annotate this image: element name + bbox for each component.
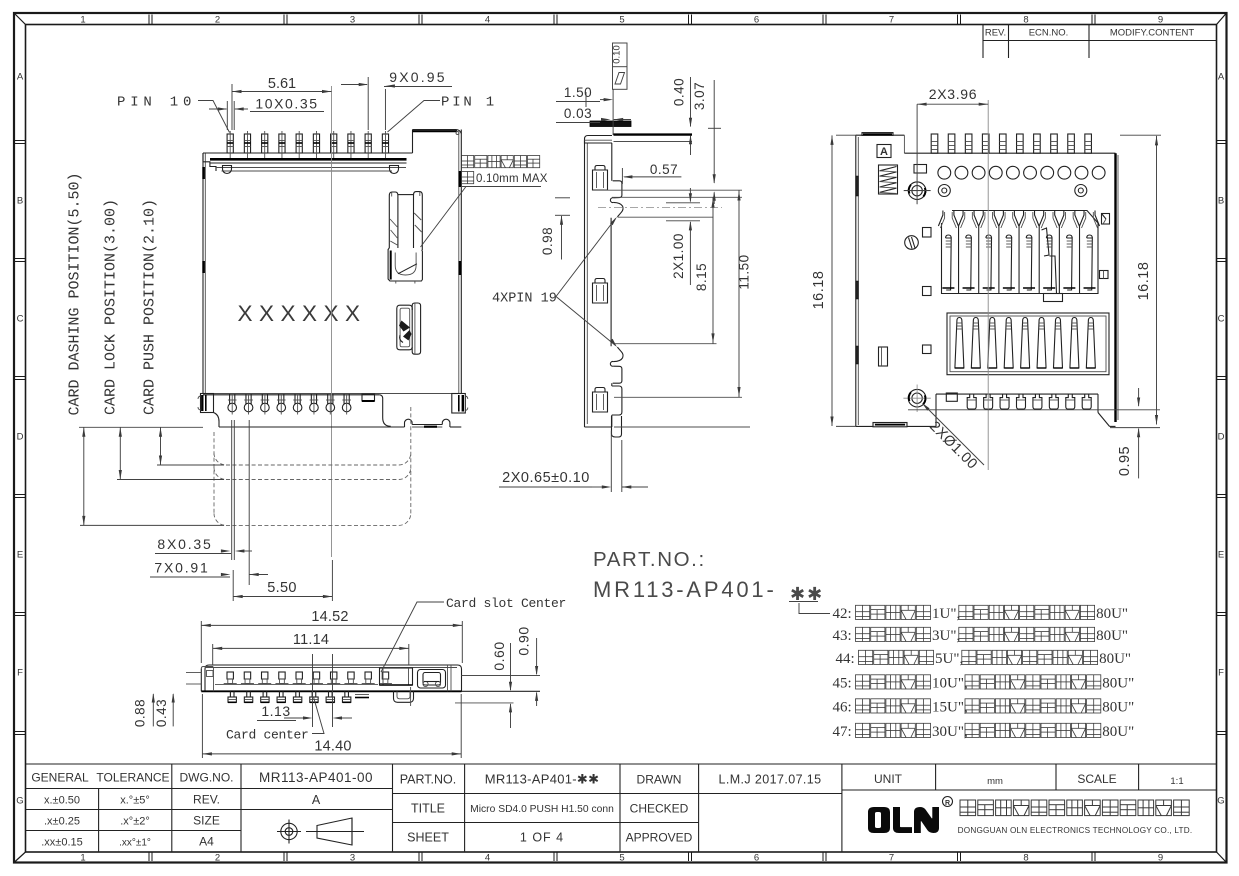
svg-text:DWG.NO.: DWG.NO.: [180, 771, 234, 785]
shell edge tick marks: [204, 167, 460, 275]
top shell band: [203, 153, 407, 171]
small rect near spring: [914, 165, 927, 174]
svg-text:MR113-AP401-✱✱: MR113-AP401-✱✱: [485, 772, 600, 787]
svg-text:4XPIN 19: 4XPIN 19: [492, 292, 557, 307]
svg-text:REV.: REV.: [193, 793, 220, 807]
svg-text:80U": 80U": [1102, 676, 1134, 692]
card slot center line: [332, 654, 334, 727]
svg-text:D: D: [17, 432, 24, 443]
svg-text:D: D: [1218, 432, 1225, 443]
dimension 7X0.91 bottom: [150, 420, 268, 585]
label PIN 10 with leader: [117, 95, 230, 133]
card center line: [312, 654, 314, 727]
svg-text:TOLERANCE: TOLERANCE: [96, 771, 169, 785]
svg-text:F: F: [17, 668, 23, 679]
svg-text:MR113-AP401-: MR113-AP401-: [593, 577, 777, 602]
side view body outline: [585, 140, 612, 427]
svg-text:2: 2: [215, 853, 220, 864]
svg-text:0.60: 0.60: [491, 641, 507, 670]
svg-text:8: 8: [1023, 853, 1028, 864]
svg-text:1: 1: [80, 15, 85, 26]
dimension 0.98: [540, 198, 570, 260]
svg-text:0.90: 0.90: [516, 626, 532, 655]
svg-text:.xx°±1°: .xx°±1°: [119, 838, 151, 849]
label Card slot Center with leader: [381, 596, 566, 672]
svg-text:1.13: 1.13: [261, 703, 290, 719]
svg-text:15U",: 15U",: [932, 700, 968, 716]
svg-text:0.57: 0.57: [650, 162, 678, 177]
square with diagonal right: [1102, 214, 1110, 225]
dimension 11.14: [213, 632, 409, 665]
card stop boss lower: [610, 347, 623, 383]
svg-text:x.±0.50: x.±0.50: [44, 795, 80, 807]
svg-text:mm: mm: [987, 776, 1003, 787]
company name Chinese: [960, 800, 976, 816]
rivet left: [938, 185, 950, 197]
svg-text:1:1: 1:1: [1170, 776, 1183, 787]
svg-text:6: 6: [754, 853, 759, 864]
dimension 0.60: [491, 641, 512, 728]
svg-text:DONGGUAN OLN ELECTRONICS TECHN: DONGGUAN OLN ELECTRONICS TECHNOLOGY CO.,…: [958, 826, 1193, 835]
dimension 16.18 right: [1120, 135, 1161, 424]
coil spring symbol: [879, 165, 898, 194]
dimension 14.52: [201, 609, 462, 663]
svg-text:.x±0.25: .x±0.25: [44, 816, 80, 828]
svg-text:ECN.NO.: ECN.NO.: [1029, 28, 1069, 39]
svg-text:9: 9: [1158, 15, 1163, 26]
svg-text:3: 3: [350, 15, 355, 26]
svg-text:C: C: [1218, 314, 1225, 325]
front elevation body: [201, 665, 461, 691]
dimension 2X3.96: [904, 86, 988, 204]
svg-text:80U": 80U": [1102, 724, 1134, 740]
dimension 9X0.95: [341, 69, 452, 130]
title block texts left: [31, 770, 373, 849]
svg-text:4: 4: [485, 15, 490, 26]
side view top flange: [585, 136, 613, 144]
flatness tolerance symbol 0.10: [612, 43, 627, 89]
lower contact comb: [947, 313, 1109, 375]
dimension 0.43: [154, 693, 175, 727]
contact tips underline: [215, 684, 378, 686]
dimension 1.13: [257, 703, 352, 721]
svg-text:43:: 43:: [833, 628, 852, 644]
svg-text:8.15: 8.15: [694, 263, 709, 291]
bottom skirt outline: [214, 413, 462, 428]
projection lines right: [455, 676, 540, 703]
svg-text:PIN 1: PIN 1: [441, 95, 497, 111]
dimension 14.40: [202, 694, 461, 758]
card push position dimension: [142, 199, 225, 465]
label PIN 1 with leader: [388, 95, 498, 133]
svg-text:44:: 44:: [836, 651, 855, 667]
svg-text:G: G: [16, 796, 23, 807]
svg-text:A: A: [17, 72, 24, 83]
leader from asterisks to option list: [799, 603, 830, 614]
svg-text:0.98: 0.98: [540, 227, 555, 255]
card dashing position dimension: [67, 172, 225, 525]
svg-text:CARD PUSH POSITION(2.10): CARD PUSH POSITION(2.10): [142, 199, 159, 415]
dimension 8X0.35 bottom: [155, 420, 252, 560]
side contact window bottom: [593, 388, 608, 413]
svg-text:B: B: [17, 196, 23, 207]
center line vertical: [331, 86, 333, 557]
svg-text:80U": 80U": [1102, 700, 1134, 716]
lock clip lower: [397, 303, 421, 354]
part number heading: [593, 548, 706, 571]
side contact window middle: [593, 279, 608, 304]
dimension 0.90: [516, 626, 539, 706]
bottom left mount pad: [198, 394, 214, 413]
svg-text:SIZE: SIZE: [193, 814, 220, 828]
card detect contact: [1042, 228, 1063, 302]
svg-text:0.43: 0.43: [154, 699, 169, 727]
svg-text:GENERAL: GENERAL: [31, 771, 89, 785]
svg-text:45:: 45:: [833, 676, 852, 692]
svg-text:Micro SD4.0 PUSH H1.50 conn: Micro SD4.0 PUSH H1.50 conn: [470, 804, 614, 815]
svg-text:x.°±5°: x.°±5°: [120, 795, 150, 807]
label Card center with leader: [226, 697, 324, 743]
note spring height 0.10mm MAX: [421, 156, 548, 248]
plating option 44: [836, 650, 1132, 667]
svg-text:MODIFY.CONTENT: MODIFY.CONTENT: [1110, 28, 1194, 39]
small squares on base: [923, 228, 932, 354]
svg-text:PART.NO.: PART.NO.: [400, 773, 457, 787]
svg-text:1U",: 1U",: [932, 606, 960, 622]
zone letters A-G left: [16, 72, 24, 807]
left edge tick marks: [856, 176, 859, 364]
top left shield tab: [862, 133, 893, 136]
svg-text:B: B: [1218, 196, 1224, 207]
card lock position dimension: [103, 199, 225, 480]
card position reference line: [79, 426, 203, 428]
card slot projection lines: [598, 190, 750, 427]
upper contact comb: [942, 211, 1099, 294]
svg-text:8: 8: [1023, 15, 1028, 26]
svg-text:CARD DASHING POSITION(5.50): CARD DASHING POSITION(5.50): [67, 172, 84, 415]
svg-text:30U",: 30U",: [932, 724, 968, 740]
dimension 1.50: [556, 85, 613, 107]
svg-text:A: A: [1218, 72, 1225, 83]
svg-text:Card center: Card center: [226, 728, 309, 743]
svg-text:L.M.J 2017.07.15: L.M.J 2017.07.15: [719, 773, 822, 787]
svg-text:3.07: 3.07: [692, 82, 707, 110]
svg-text:80U": 80U": [1096, 628, 1128, 644]
svg-text:7: 7: [889, 853, 894, 864]
svg-text:14.52: 14.52: [311, 609, 348, 625]
registered trademark symbol: [943, 797, 953, 808]
dimension 0.03: [556, 106, 631, 123]
svg-text:0.40: 0.40: [672, 78, 687, 106]
svg-text:5: 5: [619, 853, 624, 864]
svg-text:80U": 80U": [1096, 606, 1128, 622]
svg-text:F: F: [1218, 668, 1224, 679]
svg-text:A: A: [880, 146, 888, 158]
plating option 45: [833, 675, 1135, 692]
dimension 0.88: [133, 693, 155, 727]
zone tick marks left/right: [15, 141, 1226, 735]
svg-text:9X0.95: 9X0.95: [389, 69, 447, 85]
svg-text:R: R: [945, 800, 950, 807]
extra tail right: [355, 695, 369, 698]
dimension 2X1.00: [666, 188, 700, 285]
top pins PIN10-PIN1: [227, 131, 388, 158]
front elevation solder tails: [228, 691, 351, 702]
svg-text:7X0.91: 7X0.91: [154, 560, 209, 576]
svg-text:G: G: [1217, 796, 1224, 807]
dimension 0.40: [672, 77, 693, 155]
left slot rect: [879, 347, 888, 366]
svg-text:REV.: REV.: [985, 28, 1006, 39]
plating option 42: [833, 605, 1129, 622]
svg-text:5: 5: [619, 15, 624, 26]
hole 2X1.00 top crosshair: [903, 177, 930, 205]
eject housing tab below: [394, 687, 414, 706]
zone letters A-G right: [1217, 72, 1225, 807]
bottom pins row: [228, 394, 351, 415]
svg-text:Card slot Center: Card slot Center: [446, 596, 566, 611]
side contact window top: [593, 166, 608, 191]
svg-text:8X0.35: 8X0.35: [157, 536, 212, 552]
dimension 3.07: [692, 80, 721, 204]
svg-text:10X0.35: 10X0.35: [255, 96, 318, 112]
zone tick marks top/bottom: [149, 15, 1095, 862]
svg-text:.xx±0.15: .xx±0.15: [41, 837, 83, 849]
svg-text:0.10: 0.10: [612, 45, 623, 64]
svg-text:2X3.96: 2X3.96: [929, 86, 978, 102]
projection lines left: [186, 673, 201, 685]
svg-text:3U",: 3U",: [932, 628, 960, 644]
side view top lead bar: [590, 121, 692, 142]
svg-text:80U": 80U": [1099, 651, 1131, 667]
push rod window: [418, 670, 446, 689]
svg-text:E: E: [1218, 550, 1224, 561]
center line bottom view: [987, 100, 989, 470]
flatness datum line: [612, 90, 614, 136]
dimension 10X0.35: [209, 96, 324, 131]
bottom tab row: [946, 393, 1091, 409]
dimension 11.50: [737, 190, 752, 397]
front elevation contact tips: [224, 672, 392, 684]
svg-text:6: 6: [754, 15, 759, 26]
card stop boss upper: [610, 181, 623, 217]
svg-text:SHEET: SHEET: [407, 831, 449, 845]
bottom right mount pad: [452, 394, 468, 414]
plating option 47: [833, 723, 1135, 740]
svg-text:5U",: 5U",: [935, 651, 963, 667]
svg-text:CHECKED: CHECKED: [630, 802, 689, 816]
svg-text:2X0.65±0.10: 2X0.65±0.10: [502, 470, 590, 486]
side mount pad: [612, 386, 622, 415]
rivet right: [1075, 185, 1087, 197]
svg-text:16.18: 16.18: [811, 271, 827, 310]
svg-text:2X1.00: 2X1.00: [671, 233, 686, 279]
svg-text:5.61: 5.61: [268, 76, 296, 92]
bottom left shield tab: [873, 423, 907, 427]
title block texts right: [400, 772, 1184, 845]
svg-text:16.18: 16.18: [1136, 262, 1152, 301]
svg-text:14.40: 14.40: [314, 739, 351, 755]
front view body outline: [203, 130, 461, 394]
svg-text:0.03: 0.03: [564, 106, 592, 121]
dimension 5.61: [232, 76, 332, 130]
svg-text:SCALE: SCALE: [1077, 772, 1116, 786]
svg-text:C: C: [17, 314, 24, 325]
spring contact upper: [388, 192, 422, 284]
title block grid: [26, 764, 1217, 852]
dimension 0.57: [622, 162, 681, 184]
dimension 16.18 left: [811, 135, 857, 426]
zone numbers 1-9 top: [80, 15, 1163, 26]
svg-text:42:: 42:: [833, 606, 852, 622]
screw head detail: [905, 236, 919, 250]
revision table header REV ECN.NO MODIFY.CONTENT: [983, 25, 1217, 59]
top tab row: [931, 134, 1091, 153]
svg-text:4: 4: [485, 853, 490, 864]
bottom notch rectangle: [362, 394, 375, 401]
svg-text:9: 9: [1158, 853, 1163, 864]
dimension 5.50 bottom: [233, 560, 332, 601]
dimension 2X0.65 plus minus 0.10: [499, 431, 648, 493]
svg-text:10U",: 10U",: [932, 676, 968, 692]
right side tab: [1100, 271, 1109, 279]
svg-text:11.14: 11.14: [293, 632, 329, 648]
svg-text:✱✱: ✱✱: [790, 584, 824, 604]
side solder tab: [612, 416, 622, 437]
shell hook right: [390, 166, 399, 174]
label 2X diameter 1.00 leader: [922, 403, 984, 473]
svg-text:7: 7: [889, 15, 894, 26]
hole 2X1.00 bottom crosshair: [903, 385, 930, 413]
svg-text:A4: A4: [199, 835, 214, 849]
svg-text:1: 1: [80, 853, 85, 864]
svg-text:0.88: 0.88: [133, 699, 148, 727]
plating option 46: [833, 699, 1135, 716]
svg-text:A: A: [312, 793, 321, 807]
label 4XPIN 19 with leaders: [492, 217, 617, 348]
front view body bottom edge: [203, 393, 461, 395]
svg-text:CARD LOCK POSITION(3.00): CARD LOCK POSITION(3.00): [103, 199, 120, 415]
third angle projection symbol: [277, 818, 364, 845]
svg-text:47:: 47:: [833, 724, 852, 740]
svg-text:TITLE: TITLE: [411, 802, 445, 816]
svg-text:.x°±2°: .x°±2°: [120, 816, 150, 828]
svg-text:PIN 10: PIN 10: [117, 95, 196, 111]
svg-text:2: 2: [215, 15, 220, 26]
svg-text:1 OF 4: 1 OF 4: [520, 831, 564, 845]
svg-text:DRAWN: DRAWN: [637, 773, 682, 787]
svg-text:46:: 46:: [833, 700, 852, 716]
svg-text:3: 3: [350, 853, 355, 864]
card slot opening: [380, 668, 413, 685]
plating option 43: [833, 627, 1129, 644]
svg-text:5.50: 5.50: [267, 580, 296, 596]
datum label A box: [877, 145, 891, 159]
svg-text:UNIT: UNIT: [874, 772, 903, 786]
svg-text:APPROVED: APPROVED: [626, 831, 693, 845]
part number value: [593, 577, 824, 604]
dimension 8.15: [694, 197, 715, 343]
bottom view outline: [856, 135, 1118, 426]
svg-text:PART.NO.:: PART.NO.:: [593, 548, 706, 571]
svg-text:0.95: 0.95: [1117, 446, 1133, 476]
svg-text:MR113-AP401-00: MR113-AP401-00: [259, 770, 373, 785]
dimension 0.95: [908, 388, 1160, 478]
card dashed outline below: [214, 407, 411, 525]
svg-text:0.10mm MAX: 0.10mm MAX: [476, 173, 548, 185]
svg-text:E: E: [17, 550, 23, 561]
shell hook left: [223, 166, 232, 174]
svg-text:XXXXXX: XXXXXX: [237, 301, 366, 326]
svg-text:1.50: 1.50: [564, 85, 592, 100]
zone numbers 1-9 bottom: [80, 853, 1163, 864]
contact hole circles row: [938, 166, 1105, 179]
OLN logo: [868, 807, 939, 833]
